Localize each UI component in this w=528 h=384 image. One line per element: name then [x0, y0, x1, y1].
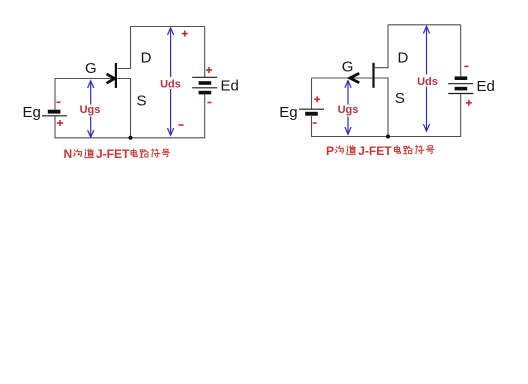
transistor Q1 gate arrow (pointing into bar): [107, 74, 115, 83]
svg-text:J-FET: J-FET: [96, 147, 130, 161]
polarity mark: Uds plus (top, N-circuit): [182, 31, 188, 37]
arrow: Ugs voltage double arrow (N-circuit): [88, 81, 94, 137]
svg-text:Eg: Eg: [23, 104, 41, 121]
polarity mark: Eg plus (top, P-circuit): [314, 96, 320, 102]
polarity mark: Eg minus (top): [57, 101, 61, 103]
label: Uds (P-circuit): [417, 75, 439, 89]
node: P-circuit source/bottom-rail junction: [386, 135, 390, 139]
label: Uds (N-circuit): [160, 77, 182, 91]
label: source pin S (P-circuit): [395, 90, 405, 107]
svg-text:Ugs: Ugs: [338, 104, 359, 116]
svg-text:P: P: [326, 144, 334, 158]
wire: P-circuit top rail: [388, 24, 461, 26]
polarity mark: Ed plus (bottom, P-circuit): [466, 100, 472, 106]
polarity mark: Ed plus (top): [206, 67, 212, 73]
wire: N-circuit gate lead: [55, 78, 115, 80]
label: battery Eg value (P-circuit): [279, 104, 297, 121]
wire: P-circuit source lead (bar to bottom rail): [375, 78, 388, 137]
transistor Q2 P-channel JFET channel bar: [372, 63, 374, 88]
svg-text:Ugs: Ugs: [80, 104, 101, 116]
svg-text:D: D: [141, 50, 152, 67]
label: Ugs (P-circuit): [338, 104, 359, 117]
wire: P-circuit right rail lower segment: [460, 94, 462, 137]
battery Ed (N-circuit) plate 3 thin: [192, 87, 217, 89]
polarity mark: Uds minus (bottom, N-circuit): [179, 124, 184, 126]
svg-text:Uds: Uds: [417, 76, 438, 88]
wire: N-circuit top rail: [131, 26, 205, 28]
battery Ed (P-circuit) plate 4 thin: [448, 93, 473, 95]
label: source pin S (N-circuit): [136, 93, 146, 110]
wire: N-circuit source lead (bar to bottom rail): [118, 79, 131, 138]
label: P-channel title text: [326, 144, 434, 158]
svg-text:Uds: Uds: [160, 79, 181, 91]
svg-text:Ed: Ed: [221, 77, 239, 94]
wire: N-circuit left rail upper segment: [54, 78, 56, 110]
battery Ed (P-circuit) plate 1 thick: [455, 76, 468, 80]
wire: N-circuit drain lead (bar to top rail): [118, 27, 131, 69]
wire: P-circuit left rail upper segment: [311, 78, 313, 109]
polarity mark: Ed minus (bottom): [208, 102, 212, 104]
wire: P-circuit left rail lower segment: [311, 116, 313, 137]
battery Ed (P-circuit) plate 3 thick: [455, 87, 468, 91]
wire: P-circuit bottom rail: [311, 136, 461, 138]
node: N-circuit source/bottom-rail junction: [129, 136, 133, 140]
arrow: Uds voltage double arrow (N-circuit): [168, 28, 174, 135]
transistor Q1 N-channel JFET channel bar: [115, 63, 117, 88]
svg-text:Ed: Ed: [477, 78, 495, 95]
svg-text:Eg: Eg: [279, 104, 297, 121]
battery Ed (N-circuit) plate 2 thick: [199, 81, 212, 85]
label: Ugs (N-circuit): [80, 104, 101, 117]
arrow: Ugs voltage double arrow (P-circuit): [345, 81, 351, 135]
arrow: Uds voltage double arrow (P-circuit): [423, 26, 429, 131]
transistor Q2 gate arrow (pointing away from bar): [350, 73, 359, 83]
polarity mark: Eg plus (bottom): [57, 120, 63, 126]
label: gate pin G (N-circuit): [85, 60, 97, 77]
label: gate pin G (P-circuit): [342, 59, 354, 76]
battery Ed (P-circuit) plate 2 thin: [448, 83, 473, 85]
label: battery Eg value (N-circuit): [23, 104, 41, 121]
label: battery Ed value (N-circuit): [221, 77, 239, 94]
wire: N-circuit bottom rail: [55, 137, 206, 139]
battery Eg (P-circuit) negative thick plate: [305, 112, 318, 116]
polarity mark: Ed minus (top, P-circuit): [464, 65, 468, 67]
polarity mark: Eg minus (bottom, P-circuit): [313, 122, 317, 124]
svg-text:G: G: [342, 59, 354, 76]
battery Ed (N-circuit) plate 4 thick: [199, 91, 212, 95]
wire: N-circuit left rail lower segment: [54, 116, 56, 138]
battery Ed (N-circuit) plate 1 thin positive: [192, 76, 217, 78]
svg-text:G: G: [85, 60, 97, 77]
label: battery Ed value (P-circuit): [477, 78, 495, 95]
battery Eg (N-circuit) positive thin plate: [42, 115, 67, 117]
wire: P-circuit drain lead (bar to top rail): [375, 25, 388, 68]
wire: P-circuit gate lead: [312, 77, 373, 79]
label: drain pin D (N-circuit): [141, 50, 152, 67]
wire: P-circuit right rail upper segment: [460, 25, 462, 77]
wire: N-circuit right rail upper segment: [204, 27, 206, 78]
battery Eg (P-circuit) positive thin plate: [299, 108, 324, 110]
svg-text:S: S: [136, 93, 146, 110]
svg-text:N: N: [64, 147, 73, 161]
wire: N-circuit right rail lower segment: [204, 94, 206, 138]
svg-text:D: D: [397, 50, 408, 67]
svg-text:J-FET: J-FET: [358, 144, 392, 158]
battery Eg (N-circuit) negative thick plate: [48, 110, 61, 114]
svg-text:S: S: [395, 90, 405, 107]
label: drain pin D (P-circuit): [397, 50, 408, 67]
label: N-channel title text: [64, 147, 170, 161]
